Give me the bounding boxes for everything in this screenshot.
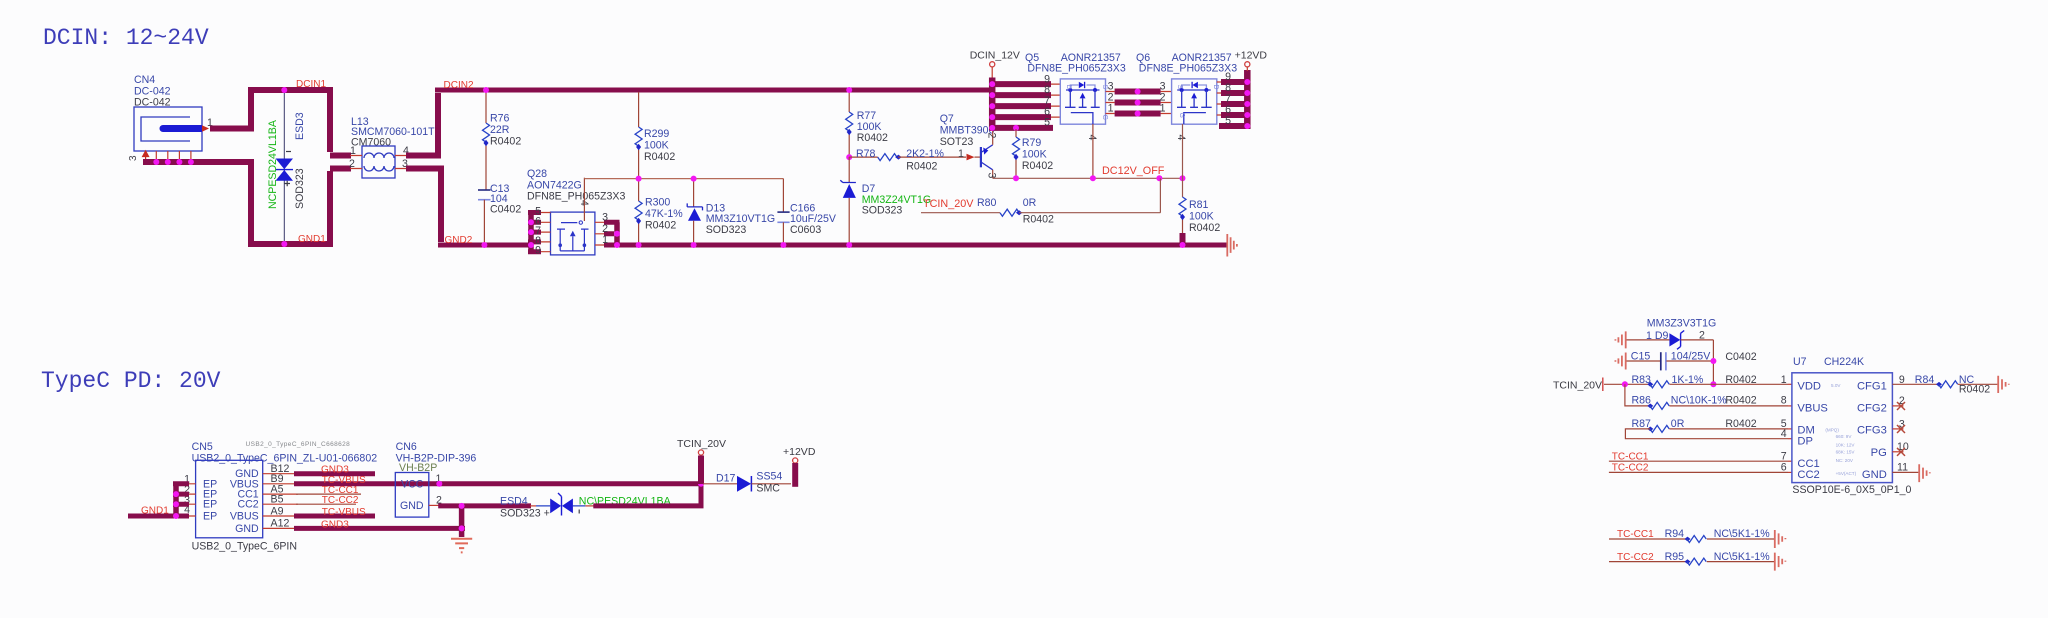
net label TC-VBUS bottom: [322, 507, 366, 518]
svg-text:R84: R84: [1915, 374, 1935, 386]
svg-text:VBUS: VBUS: [230, 511, 259, 523]
junction dots C15/D9 riser: [1710, 358, 1716, 387]
svg-text:100K: 100K: [644, 140, 669, 152]
wire Q6 pin4 to R81: [1182, 124, 1184, 197]
TVS diode ESD4: [500, 493, 672, 520]
net label GND3 bottom: [321, 519, 349, 530]
resistor R95: [1665, 551, 1774, 565]
svg-text:MM3Z3V3T1G: MM3Z3V3T1G: [1647, 318, 1716, 330]
wire CN4 shield to GND1 rail: [143, 162, 351, 244]
junction dots CN5 shield: [173, 491, 179, 519]
junction dot CN6 pin1: [436, 481, 442, 487]
svg-text:R80: R80: [977, 197, 997, 209]
mosfet Q6 AONR21357: [1136, 52, 1237, 141]
svg-text:4: 4: [1781, 428, 1787, 440]
net label GND3 top: [321, 465, 349, 476]
zener diode D9 MM3Z3V3T1G: [1627, 318, 1717, 385]
resistor R80: [921, 178, 1160, 225]
svg-text:DFN8E_PH065Z3X3: DFN8E_PH065Z3X3: [1027, 63, 1125, 75]
wire DCIN2 rail: [435, 88, 991, 93]
svg-text:22R: 22R: [490, 124, 510, 136]
svg-text:NC: 20V: NC: 20V: [1836, 458, 1854, 463]
svg-text:SOT23: SOT23: [940, 136, 974, 148]
svg-text:3: 3: [986, 173, 998, 179]
section title DCIN: 12~24V: [43, 25, 209, 51]
wire Q5 pin4: [1092, 124, 1094, 178]
ground sideways C15: [1615, 353, 1625, 370]
wire DC12V_OFF node: [993, 177, 1183, 179]
svg-text:R0402: R0402: [1725, 418, 1756, 430]
ground sideways R95: [1775, 553, 1786, 571]
CN5 shield bus to GND1: [128, 484, 189, 516]
svg-text:TCIN_20V: TCIN_20V: [923, 198, 974, 210]
resistor R83: [1632, 374, 1792, 388]
svg-text:11: 11: [1897, 462, 1908, 474]
svg-text:2: 2: [602, 223, 608, 235]
junction dots DC12V_OFF: [1013, 175, 1186, 181]
junction dot R77 top: [846, 87, 852, 160]
svg-text:CH224K: CH224K: [1824, 356, 1864, 368]
junction dots DCIN_12V bus: [989, 81, 1019, 131]
wire GND2 rail left: [438, 243, 531, 248]
connector CN4: [128, 74, 213, 162]
svg-text:NC\10K-1%: NC\10K-1%: [1671, 395, 1728, 407]
junction dots mid bars: [1135, 89, 1141, 117]
bus DCIN_12V vertical: [989, 78, 996, 131]
svg-text:DFN8E_PH065Z3X3: DFN8E_PH065Z3X3: [1139, 63, 1237, 75]
power port DCIN_12V: [970, 50, 1020, 79]
wire R83 to R86 drop: [1625, 384, 1649, 406]
wire gate node: [584, 178, 783, 180]
svg-text:1: 1: [958, 148, 964, 160]
svg-text:CC2: CC2: [1797, 469, 1819, 481]
svg-text:SOD323: SOD323: [706, 224, 747, 236]
svg-text:G: G: [1101, 115, 1108, 120]
svg-text:USB2_0_TypeC_6PIN: USB2_0_TypeC_6PIN: [192, 541, 297, 553]
no-connect PG: [1892, 441, 1908, 456]
wire B9 TC-VBUS to CN6 pin1: [294, 481, 701, 486]
junction dots CN6 gnd: [459, 503, 465, 532]
svg-text:SSOP10E-6_0X5_0P1_0: SSOP10E-6_0X5_0P1_0: [1792, 484, 1911, 496]
svg-text:DC12V_OFF: DC12V_OFF: [1102, 165, 1165, 177]
svg-text:NCPESD24VL1BA: NCPESD24VL1BA: [267, 119, 279, 209]
net label TCIN_20V at R80: [923, 198, 974, 210]
resistor R87: [1632, 418, 1792, 433]
wire CN4 pin1 to DCIN1 rail: [210, 90, 351, 156]
svg-text:D: D: [1065, 85, 1072, 90]
wire B5 TC-CC2: [296, 503, 356, 505]
svg-text:9: 9: [535, 245, 541, 257]
svg-text:CFG1: CFG1: [1857, 381, 1887, 393]
transistor Q28 AON7422G: [527, 168, 625, 255]
svg-text:CFG2: CFG2: [1857, 403, 1887, 415]
transistor Q7 MMBT3906: [940, 113, 998, 179]
resistor R84: [1892, 374, 1997, 396]
svg-text:GND2: GND2: [445, 235, 473, 246]
bus bars Q6 right: [1217, 71, 1250, 127]
svg-text:CC2: CC2: [237, 499, 258, 511]
diode D7 MM3Z24VT1G: [840, 157, 931, 245]
svg-text:R87: R87: [1632, 418, 1652, 430]
wire A12 GND3: [294, 526, 465, 531]
net label DCIN1: [296, 79, 326, 90]
svg-text:3: 3: [128, 155, 139, 161]
ESD diode ESD3 NCPESD24VL1BA: [267, 90, 306, 244]
svg-text:100K: 100K: [1189, 211, 1214, 223]
svg-text:DCIN2: DCIN2: [444, 80, 474, 91]
svg-text:VCC: VCC: [401, 478, 424, 490]
svg-text:DFN8E_PH065Z3X3: DFN8E_PH065Z3X3: [527, 191, 625, 203]
svg-text:1: 1: [1160, 103, 1166, 115]
Q28 left pin bus: [528, 206, 551, 257]
ground sideways R94: [1775, 530, 1786, 548]
resistor R77: [846, 92, 888, 157]
svg-text:R0402: R0402: [1959, 384, 1990, 396]
svg-text:C0402: C0402: [1725, 351, 1756, 363]
svg-text:CN4: CN4: [134, 74, 155, 86]
svg-text:CN5: CN5: [192, 441, 213, 453]
bus bars Q5 left: [990, 74, 1060, 129]
svg-text:0R: 0R: [1023, 197, 1037, 209]
junction dots ESD3: [281, 87, 287, 247]
svg-text:4: 4: [1086, 135, 1098, 141]
svg-text:CN6: CN6: [396, 441, 417, 453]
port TCIN_20V right: [1553, 378, 1649, 392]
wire TC-CC1 to R94: [1609, 529, 1687, 540]
wire A5 TC-CC1: [296, 493, 361, 495]
no-connect CFG2: [1892, 395, 1905, 410]
svg-text:PG: PG: [1871, 447, 1887, 459]
svg-text:D17: D17: [716, 472, 736, 484]
resistor R299: [635, 92, 675, 179]
no-connect CFG3: [1892, 418, 1905, 433]
svg-text:GND3: GND3: [321, 519, 349, 530]
resistor R78: [849, 148, 966, 173]
svg-text:2: 2: [986, 133, 998, 139]
wire CN6 pin2 to ESD4: [438, 503, 531, 508]
svg-text:R86: R86: [1632, 395, 1652, 407]
svg-text:R0402: R0402: [1023, 214, 1054, 226]
svg-text:6: 6: [1781, 461, 1787, 473]
net label TC-CC1: [322, 485, 359, 496]
Q28 right pin bus: [595, 211, 620, 246]
resistor R81: [1179, 197, 1220, 245]
svg-text:SOD323 +: SOD323 +: [500, 508, 550, 520]
svg-text:R81: R81: [1189, 199, 1209, 211]
svg-text:DCIN_12V: DCIN_12V: [970, 50, 1020, 62]
svg-text:4: 4: [1175, 135, 1187, 141]
svg-text:R0402: R0402: [490, 136, 521, 148]
wire TC-CC1 to U7: [1609, 450, 1792, 462]
wire L13 to DCIN2 rail: [406, 93, 438, 156]
svg-text:660: 9V: 660: 9V: [1836, 434, 1853, 439]
svg-text:S: S: [1176, 85, 1183, 90]
junction dot D7 bottom: [846, 242, 852, 248]
svg-text:Q7: Q7: [940, 113, 954, 125]
ground GND2 rail: [1227, 234, 1237, 257]
net label TC-CC2: [322, 495, 359, 506]
svg-text:Q28: Q28: [527, 168, 547, 180]
svg-text:3: 3: [602, 211, 608, 223]
svg-text:DCIN1: DCIN1: [296, 79, 326, 90]
IC U7 CH224K: [1792, 356, 1912, 496]
ground U7 pin11: [1892, 462, 1918, 474]
svg-text:TC-CC2: TC-CC2: [322, 495, 359, 506]
svg-text:47K-1%: 47K-1%: [645, 208, 683, 220]
svg-text:U7: U7: [1793, 356, 1807, 368]
net label GND1: [298, 234, 326, 245]
svg-text:C0402: C0402: [490, 204, 521, 216]
svg-text:CFG3: CFG3: [1857, 424, 1887, 436]
power port TCIN_20V bottom: [677, 438, 726, 484]
svg-text:DP: DP: [1797, 435, 1813, 447]
svg-text:5: 5: [1225, 115, 1231, 127]
svg-text:NC\5K1-1%: NC\5K1-1%: [1714, 528, 1771, 540]
power port +12VD bottom: [783, 446, 816, 487]
net label DC12V_OFF: [1102, 165, 1165, 177]
svg-text:TCIN_20V: TCIN_20V: [1553, 380, 1602, 392]
net label GND1 bottom: [141, 506, 169, 517]
svg-text:GND: GND: [235, 523, 259, 535]
svg-text:5: 5: [1044, 116, 1050, 128]
junction dots Q28 left: [528, 219, 534, 248]
svg-text:+5V(ACT): +5V(ACT): [1836, 471, 1857, 476]
svg-text:R0402: R0402: [1189, 222, 1220, 234]
diode D13 MM3Z10VT1G: [687, 179, 775, 245]
wire A9 TC-VBUS: [294, 514, 375, 519]
svg-text:R94: R94: [1665, 528, 1685, 540]
junction dots gate node and rail: [636, 176, 787, 248]
capacitor C15: [1627, 351, 1757, 371]
junction dots CN4 shield: [153, 159, 194, 165]
svg-text:R0402: R0402: [645, 220, 676, 232]
svg-text:R76: R76: [490, 113, 510, 125]
svg-text:CC1: CC1: [1797, 458, 1819, 470]
svg-text:R300: R300: [645, 197, 670, 209]
svg-text:TypeC PD: 20V: TypeC PD: 20V: [41, 368, 221, 394]
ground earth CN6: [451, 539, 472, 553]
svg-text:GND: GND: [400, 500, 424, 512]
svg-text:VDD: VDD: [1797, 381, 1821, 393]
junction dots Q28 right: [614, 231, 620, 248]
resistor R94: [1665, 528, 1774, 542]
svg-text:1: 1: [350, 145, 356, 157]
wire TC-CC2 to U7: [1609, 461, 1792, 473]
mid bus bars Q5-Q6: [1106, 81, 1172, 115]
svg-text:D: D: [1212, 85, 1219, 90]
svg-text:1: 1: [1108, 103, 1114, 115]
svg-text:10K: 12V: 10K: 12V: [1836, 442, 1856, 447]
ground sideways R84: [1998, 376, 2009, 393]
wire L13 to GND2 rail: [406, 169, 441, 243]
svg-text:2K2-1%: 2K2-1%: [906, 148, 944, 160]
svg-text:SOD323: SOD323: [294, 168, 306, 209]
svg-text:TC-VBUS: TC-VBUS: [322, 507, 366, 518]
svg-text:EP: EP: [203, 511, 217, 523]
svg-text:1: 1: [1781, 374, 1787, 386]
svg-text:SS54: SS54: [756, 471, 782, 483]
svg-text:CM7060: CM7060: [351, 137, 391, 149]
svg-text:VBUS: VBUS: [1797, 403, 1827, 415]
resistor R300: [635, 179, 683, 245]
junction dot TCIN riser: [698, 481, 704, 487]
power port +12VD top: [1235, 50, 1268, 72]
junction dot R76 top: [481, 87, 489, 248]
svg-text:R0402: R0402: [857, 132, 888, 144]
svg-text:C0603: C0603: [790, 224, 821, 236]
capacitor C13: [478, 183, 521, 245]
svg-text:68K: 15V: 68K: 15V: [1836, 450, 1856, 455]
svg-text:USB2_0_TypeC_6PIN_C668628: USB2_0_TypeC_6PIN_C668628: [246, 441, 351, 448]
resistor R86: [1632, 395, 1792, 410]
svg-text:5.0V: 5.0V: [1831, 383, 1841, 388]
section title TypeC PD: 20V: [41, 368, 221, 394]
net label GND2: [445, 235, 473, 246]
svg-text:GND: GND: [1862, 469, 1887, 481]
junction dot R81 bottom: [1180, 242, 1186, 248]
resistor R76: [483, 92, 522, 190]
svg-text:1: 1: [602, 234, 608, 246]
svg-text:R0402: R0402: [906, 161, 937, 173]
ground sideways U7 GND: [1919, 464, 1930, 482]
svg-text:R299: R299: [644, 128, 669, 140]
common-mode choke L13: [349, 116, 435, 178]
wire CN6 gnd drop: [459, 506, 465, 537]
svg-text:8: 8: [1781, 395, 1787, 407]
svg-text:GND1: GND1: [141, 506, 169, 517]
capacitor C166: [777, 179, 836, 245]
junction dot R83 left: [1622, 381, 1628, 387]
wire R87 to DP row: [1625, 428, 1792, 440]
net label TC-VBUS top: [322, 475, 366, 486]
bus +12VD vertical: [1244, 70, 1251, 129]
svg-text:R0402: R0402: [1022, 160, 1053, 172]
svg-text:DCIN: 12~24V: DCIN: 12~24V: [43, 25, 209, 51]
mosfet Q5 AONR21357: [1025, 52, 1126, 141]
connector CN6: [395, 441, 476, 517]
svg-text:R79: R79: [1022, 137, 1042, 149]
ground sideways D9: [1615, 331, 1625, 348]
svg-text:SMC: SMC: [756, 483, 780, 495]
svg-text:GND1: GND1: [298, 234, 326, 245]
svg-text:104/25V: 104/25V: [1671, 351, 1711, 363]
svg-text:SOD323: SOD323: [862, 205, 903, 217]
resistor R79: [1013, 129, 1054, 178]
svg-text:+12VD: +12VD: [783, 446, 816, 458]
svg-text:R0402: R0402: [1725, 395, 1756, 407]
wire ESD4 to TCIN riser: [593, 483, 701, 506]
svg-text:G: G: [1178, 113, 1185, 118]
svg-text:R95: R95: [1665, 551, 1685, 563]
svg-text:NC\5K1-1%: NC\5K1-1%: [1714, 551, 1771, 563]
svg-text:+12VD: +12VD: [1235, 50, 1268, 62]
svg-text:(MPQ): (MPQ): [1825, 427, 1839, 432]
wire B12 GND3: [294, 471, 375, 476]
svg-text:100K: 100K: [1022, 149, 1047, 161]
diode D17 SS54: [703, 471, 791, 495]
svg-text:EP: EP: [203, 499, 217, 511]
net label DCIN2: [444, 80, 474, 91]
connector CN5: [184, 441, 377, 553]
svg-text:2: 2: [349, 158, 355, 170]
wire GND2 rail right: [604, 243, 1227, 248]
wire TC-CC2 to R95: [1609, 552, 1687, 563]
svg-text:R0402: R0402: [1725, 374, 1756, 386]
junction dots +12VD bus: [1244, 79, 1250, 129]
svg-text:ESD4: ESD4: [500, 496, 528, 508]
svg-text:0R: 0R: [1671, 418, 1685, 430]
svg-text:R78: R78: [856, 148, 876, 160]
svg-text:ESD3: ESD3: [294, 112, 306, 140]
svg-text:TCIN_20V: TCIN_20V: [677, 438, 726, 450]
svg-text:R0402: R0402: [644, 151, 675, 163]
